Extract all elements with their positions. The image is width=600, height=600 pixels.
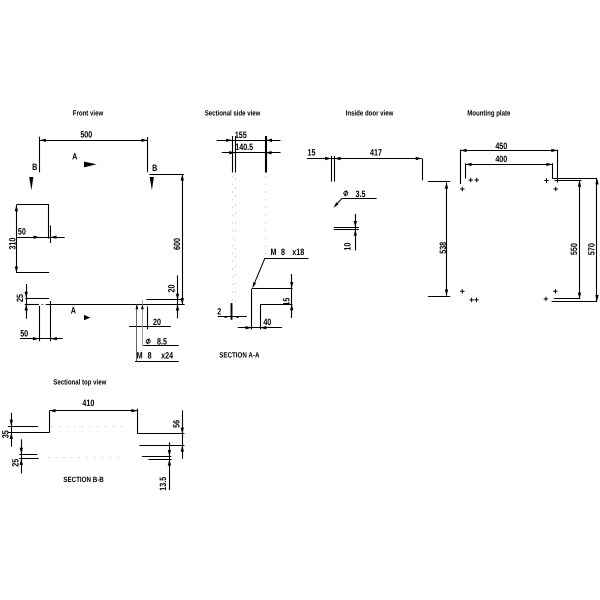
- side view: label M 8 x18 with leader: [252, 247, 308, 288]
- top view: dimension 13.5: [158, 443, 171, 491]
- plate: bottom edge line (550 reference): [554, 298, 580, 300]
- view title: Front view: [73, 108, 103, 117]
- door view: door edge double line: [334, 228, 359, 230]
- svg-text:35: 35: [0, 430, 10, 438]
- view title: Sectional top view: [53, 377, 106, 386]
- plate: fixing hole marks bottom-left: [460, 289, 479, 302]
- front view: dimension 500 extension line right: [147, 137, 149, 172]
- svg-text:570: 570: [587, 243, 597, 255]
- svg-text:A: A: [72, 152, 77, 162]
- view title: Mounting plate: [467, 108, 510, 117]
- side view: flange inner vertical: [260, 304, 262, 330]
- side view: dimension 15: [282, 274, 294, 318]
- front view: top tick of 600 dimension: [149, 174, 184, 176]
- top view: dimension 25: [10, 439, 23, 473]
- view title: SECTION B-B: [63, 475, 104, 484]
- svg-text:600: 600: [172, 238, 182, 250]
- plate: dimension 400: [465, 154, 552, 166]
- svg-text:8: 8: [281, 247, 285, 257]
- top view: left wall lower line: [8, 432, 49, 434]
- door view: dimension 538: [438, 183, 448, 296]
- top view: dimension 35: [0, 413, 13, 447]
- view title: Sectional side view: [205, 108, 261, 117]
- top view: dimension 410: [49, 398, 137, 413]
- side view: flange inner horizontal: [260, 304, 292, 306]
- front view: hinge outline right vertical: [48, 205, 50, 239]
- svg-text:538: 538: [438, 242, 448, 254]
- door view: dimension 10: [343, 214, 357, 251]
- door view: dimension 15 / 417 line: [307, 148, 422, 161]
- plate: fixing hole marks top-left: [460, 178, 479, 191]
- side view: flange top horizontal: [252, 288, 293, 290]
- top view: right extension vertical (410): [137, 409, 139, 434]
- side view: dotted hidden line left outer: [232, 176, 234, 308]
- top view: dimension 56: [172, 410, 184, 458]
- svg-text:50: 50: [20, 329, 28, 339]
- front view: dimension 20 (bottom right): [166, 275, 179, 318]
- side view: extension lines 155/140.5: [233, 136, 267, 173]
- front view: dimension 500 extension line left: [39, 137, 41, 173]
- view title: SECTION A-A: [219, 350, 260, 359]
- svg-text:B: B: [32, 162, 37, 172]
- top view: dotted hidden line lower: [48, 457, 120, 459]
- front view: leader vertical to dia 8.5 label: [141, 300, 144, 346]
- svg-text:x18: x18: [292, 247, 304, 257]
- front view: bottom edge line (left segment): [25, 304, 39, 306]
- svg-text:13.5: 13.5: [158, 477, 168, 491]
- plate: dimension 450: [460, 141, 557, 152]
- plate: left extension vertical (450): [460, 150, 462, 185]
- side view: flange vertical: [251, 289, 253, 330]
- plate: right extension vertical (450): [557, 150, 559, 183]
- svg-text:140.5: 140.5: [235, 142, 253, 152]
- plate: left extension vertical (400): [465, 163, 467, 178]
- svg-text:Mounting plate: Mounting plate: [467, 108, 510, 117]
- svg-text:15: 15: [308, 148, 316, 158]
- svg-text:A: A: [71, 305, 76, 315]
- svg-text:500: 500: [80, 129, 92, 139]
- svg-text:Sectional side view: Sectional side view: [205, 108, 261, 117]
- svg-text:450: 450: [495, 141, 507, 151]
- front view: dimension 500: [40, 129, 148, 142]
- top view: dotted hidden line upper: [51, 426, 125, 428]
- side view: dotted hidden line right: [265, 176, 267, 258]
- front view: label dia 8.5: [143, 336, 179, 346]
- svg-text:8: 8: [148, 351, 152, 361]
- front view: section marker B (left): [29, 162, 37, 190]
- plate: dimension 570: [587, 178, 599, 301]
- side view: dimension 155: [217, 130, 281, 142]
- front view: leader vertical to M8 label: [136, 304, 139, 361]
- svg-text:40: 40: [263, 317, 271, 327]
- top view: right wall lower line: [139, 445, 184, 447]
- front view: hole centre vertical: [147, 306, 149, 329]
- svg-text:400: 400: [495, 154, 507, 164]
- front view: bottom line of 310 extent: [16, 272, 49, 274]
- front view: dimension 50 (upper): [16, 226, 64, 244]
- svg-text:550: 550: [569, 243, 579, 255]
- svg-text:410: 410: [82, 398, 94, 408]
- top view: left extension vertical (410): [49, 411, 51, 433]
- svg-text:155: 155: [235, 130, 247, 140]
- front view: bottom edge centreline dash: [41, 304, 43, 306]
- svg-text:SECTION A-A: SECTION A-A: [219, 350, 260, 359]
- front view: lock slot left vertical: [39, 306, 41, 342]
- plate: fixing hole marks bottom-right: [544, 289, 558, 301]
- svg-text:20: 20: [153, 317, 161, 327]
- front view: lower edge line short: [25, 298, 49, 300]
- svg-text:8.5: 8.5: [157, 336, 167, 346]
- svg-text:3.5: 3.5: [356, 189, 366, 199]
- plate: dimension 550: [569, 181, 581, 299]
- plate: top edge line (550 reference): [555, 180, 582, 182]
- plate: top edge line (570 reference): [553, 178, 598, 180]
- door view: label dia 3.5 with leader: [333, 189, 376, 208]
- door view: right extension vertical: [422, 159, 424, 181]
- svg-text:Inside door view: Inside door view: [346, 108, 394, 117]
- front view: dimension 50 (lower): [20, 329, 63, 341]
- svg-text:B: B: [152, 163, 157, 173]
- svg-text:2: 2: [217, 306, 221, 316]
- front view: lock slot right vertical: [50, 301, 52, 341]
- door view: bottom tick of 538: [428, 296, 450, 298]
- plate: bottom edge line (570 reference): [552, 301, 597, 303]
- svg-text:SECTION B-B: SECTION B-B: [63, 475, 104, 484]
- plate: right extension vertical (400): [552, 163, 554, 178]
- svg-text:M: M: [137, 351, 143, 361]
- plate: fixing hole marks top-right: [544, 178, 558, 191]
- top view: right wall upper line: [138, 433, 184, 435]
- svg-text:Front view: Front view: [73, 108, 103, 117]
- side view: dotted hidden line left inner: [235, 179, 237, 307]
- svg-text:20: 20: [166, 285, 176, 293]
- front view: dimension 20 (hole pitch): [129, 317, 171, 327]
- top view: left door double line: [19, 455, 38, 459]
- svg-text:417: 417: [370, 148, 382, 158]
- top view: right door double line: [142, 457, 172, 460]
- front view: bottom edge line (right segment): [46, 304, 185, 306]
- svg-text:56: 56: [172, 420, 182, 428]
- side view: dimension 140.5: [222, 142, 281, 155]
- svg-text:25: 25: [10, 459, 20, 467]
- svg-text:25: 25: [15, 294, 25, 302]
- side view: dimension 40: [238, 317, 282, 329]
- view title: Inside door view: [346, 108, 394, 117]
- front view: label M 8 x24: [135, 351, 179, 362]
- front view: dimension 25: [15, 284, 28, 319]
- front view: section arrow A (bottom): [71, 305, 91, 320]
- svg-text:x24: x24: [161, 351, 174, 361]
- door view: hinge extension line pair: [332, 156, 335, 182]
- front view: hinge outline top horizontal: [16, 204, 49, 206]
- front view: section arrow A (top): [72, 152, 96, 168]
- door view: top tick of 538: [428, 181, 450, 183]
- svg-text:Sectional top view: Sectional top view: [53, 377, 106, 386]
- front view: dimension 310: [8, 205, 19, 273]
- top view: left wall upper line: [8, 426, 38, 428]
- svg-text:10: 10: [343, 243, 353, 251]
- front view: section marker B (right): [150, 163, 158, 190]
- svg-text:50: 50: [18, 226, 26, 236]
- svg-text:15: 15: [282, 298, 292, 306]
- svg-text:M: M: [271, 247, 277, 257]
- front view: dimension 600: [172, 174, 184, 304]
- front view: hole reference line y=299.9: [146, 299, 183, 301]
- svg-text:310: 310: [8, 238, 18, 250]
- side view: dimension 2: [217, 303, 247, 320]
